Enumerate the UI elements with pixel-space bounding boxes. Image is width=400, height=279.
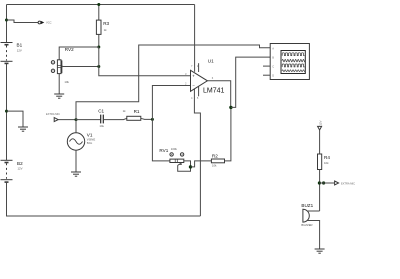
generator V1 [67,120,95,172]
svg-text:50m: 50m [87,141,93,145]
op-amp U1 LM741 [185,5,225,100]
svg-text:R3: R3 [103,21,109,26]
svg-text:A: A [272,47,274,51]
wire to terminal EXTRA MIC right [319,182,334,184]
svg-text:D: D [272,73,274,77]
svg-text:VCC: VCC [46,21,52,25]
wire terminal to input node [58,119,76,121]
wire op-amp pin4 to bottom rail [194,89,200,216]
svg-text:10k: 10k [324,161,329,165]
svg-text:100k: 100k [171,147,178,151]
svg-text:R2: R2 [212,153,218,158]
resistor R1 [123,109,141,120]
battery B1 [1,43,23,64]
ground buzzer [315,249,325,253]
wire feedback tap from input node up and right to scope A [76,45,270,120]
potentiometer RV2 [51,47,74,84]
wire C1 to R1 [103,118,127,119]
resistor R4 [318,154,331,170]
svg-text:10u: 10u [99,124,104,128]
node junction dots buzzer node [318,181,321,184]
wire left column top (B1) [6,5,8,43]
node junction dot B1 top [5,19,8,22]
wire VCC spur [7,20,39,23]
svg-text:12V: 12V [18,166,23,170]
wire R1 to minus node [141,118,153,119]
wire RV1 wiper loop [178,165,191,171]
node junction dot R3 top on rail [97,3,100,6]
svg-text:12V: 12V [318,120,322,125]
power terminal top right [318,120,323,130]
potentiometer RV1 [159,147,183,165]
wire op-amp output [207,81,230,108]
node junction dot mid battery [5,110,8,113]
svg-text:B: B [272,55,274,59]
svg-text:R1: R1 [134,109,140,114]
wire RV2 wiper to node column [63,66,99,68]
svg-text:10k: 10k [64,80,69,84]
buzzer BUZ1 [301,203,319,249]
wire ground spur [7,111,24,127]
svg-text:B2: B2 [17,161,23,166]
wire output node to scope B [231,57,270,107]
ground V1 [71,172,81,176]
wire R4 bottom [319,170,321,212]
oscilloscope [263,44,309,80]
svg-text:EXTRA MIC: EXTRA MIC [341,182,355,186]
wire B2- down to bottom rail [7,183,201,216]
battery B2 [1,160,24,182]
wire RV2 top [59,47,99,60]
wire top rail B1+ to op-amp pin7 column [7,4,195,6]
node junction dot R3 bottom [97,46,100,49]
node junction dot R1 right [151,118,154,121]
wire RV2 bottom to ground [58,74,60,94]
terminal EXTRA MIC right [335,181,356,186]
wire minus node up to op-amp inverting input [152,86,190,120]
svg-text:B1: B1 [17,43,23,48]
node junction dot output [229,106,232,109]
svg-text:BUZ1: BUZ1 [301,203,313,208]
wire B1- to B2+ [6,64,8,160]
resistor R3 [96,5,109,48]
svg-text:R4: R4 [324,155,330,160]
node junction dot input node [75,118,78,121]
svg-text:10k: 10k [212,163,217,167]
svg-text:C1: C1 [98,109,104,114]
power terminal VCC [38,21,52,25]
svg-text:BUZZER: BUZZER [301,223,312,227]
wire junction to R2 [191,161,212,167]
svg-text:LM741: LM741 [203,87,225,94]
capacitor C1 [76,109,105,129]
wire minus node down to RV1 left [152,119,170,160]
wire node column down and to op-amp plus input [99,47,191,76]
wire terminal to R4 [319,130,321,154]
svg-text:C: C [272,64,274,68]
node junction dot RV2 wiper [97,65,100,68]
ground [18,127,28,131]
svg-text:U1: U1 [208,58,214,63]
svg-text:EXTRA MIC: EXTRA MIC [46,112,60,116]
ground RV2 [54,94,64,98]
svg-text:RV2: RV2 [65,47,74,52]
svg-text:RV1: RV1 [159,148,168,153]
terminal EXTRA MIC input [46,112,60,121]
node junction dot RV1/R2 [189,165,192,168]
wire R2 right up to output node [225,107,231,160]
wire RV1 right end to junction [184,161,191,167]
svg-text:12V: 12V [17,49,22,53]
resistor R2 [211,153,224,167]
